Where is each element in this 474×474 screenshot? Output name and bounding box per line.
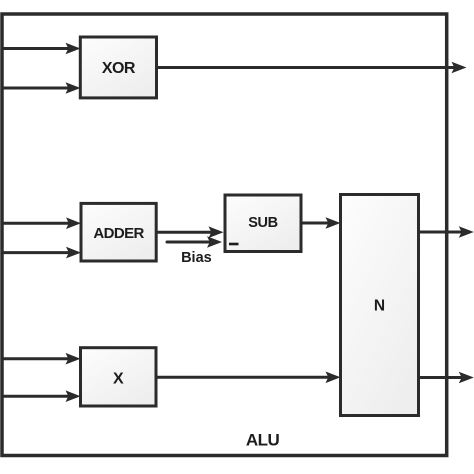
wire N output 2 bbox=[419, 372, 474, 384]
svg-text:SUB: SUB bbox=[248, 215, 277, 231]
wire ADDER to SUB bbox=[156, 226, 223, 238]
svg-text:N: N bbox=[374, 298, 385, 315]
block XOR bbox=[80, 37, 156, 98]
wire XOR input 1 bbox=[4, 43, 81, 55]
wire XOR input 2 bbox=[4, 82, 81, 94]
wire X input 2 bbox=[4, 390, 81, 402]
svg-text:ALU: ALU bbox=[246, 431, 280, 450]
block SUB bbox=[225, 195, 301, 252]
wire X to N bbox=[156, 372, 341, 384]
svg-text:XOR: XOR bbox=[102, 60, 136, 77]
wire Bias input bbox=[167, 236, 222, 248]
wire XOR output bbox=[157, 62, 467, 74]
minus sign inside SUB bbox=[229, 243, 239, 246]
wire X input 1 bbox=[4, 353, 81, 365]
block X bbox=[81, 348, 157, 406]
block N bbox=[341, 195, 419, 416]
svg-text:ADDER: ADDER bbox=[93, 225, 144, 242]
wire SUB to N bbox=[301, 217, 341, 229]
wire N output 1 bbox=[419, 226, 474, 238]
svg-text:Bias: Bias bbox=[181, 250, 212, 266]
wire ADDER input 2 bbox=[4, 247, 82, 259]
block ADDER bbox=[81, 203, 156, 261]
wire ADDER input 1 bbox=[4, 217, 82, 229]
svg-text:X: X bbox=[113, 371, 124, 388]
